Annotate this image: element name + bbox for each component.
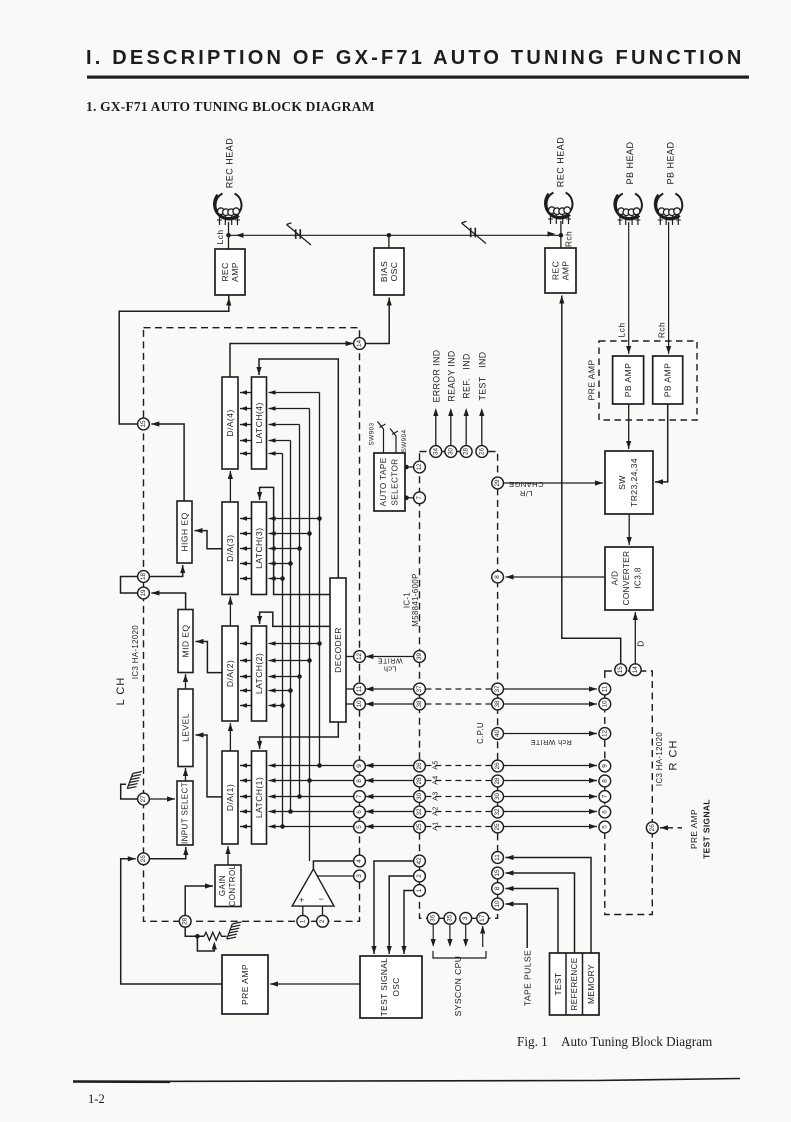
wire pin 18 to high eq input [149, 565, 182, 577]
pin 36 cpu bottom [427, 912, 439, 924]
svg-text:TEST: TEST [553, 972, 563, 995]
svg-text:A2: A2 [433, 806, 440, 815]
pin 26 cpu left [414, 760, 426, 772]
svg-text:26: 26 [649, 824, 656, 832]
wire selector to pin 12 [405, 466, 414, 468]
wire test signal osc to pre amp [270, 983, 360, 985]
a/d converter box [605, 547, 653, 610]
svg-text:28: 28 [463, 448, 470, 456]
wire rec amp L input from pin 15 [119, 295, 229, 424]
svg-text:PB AMP: PB AMP [623, 363, 633, 397]
svg-text:40: 40 [494, 730, 501, 738]
address rows A1-A5 [365, 765, 413, 767]
svg-text:TEST SIGNAL: TEST SIGNAL [379, 958, 389, 1017]
auto tape selector box [374, 453, 405, 511]
pin 29 cpu right [492, 477, 504, 489]
wire high eq output to pin 15 [151, 424, 184, 501]
wire D/A(3) to high eq [195, 531, 223, 549]
wire decoder input pin 10 [346, 703, 354, 705]
pin 38 cpu right [492, 698, 504, 710]
svg-text:A5: A5 [433, 760, 440, 769]
pin 26 r-ch right [646, 822, 658, 834]
svg-text:32: 32 [416, 808, 423, 816]
pin 2 L-ch bottom [317, 915, 329, 927]
latch LATCH(1) box [252, 751, 267, 844]
ground at trim resistor [227, 919, 242, 941]
svg-text:PB HEAD: PB HEAD [665, 141, 675, 184]
mid eq box [178, 610, 193, 673]
svg-text:A1: A1 [433, 821, 440, 830]
svg-text:3: 3 [462, 916, 469, 920]
wire cpu pin 42 to test signal osc [374, 861, 414, 954]
wire VR wiper [197, 936, 214, 951]
wire D/A chain 1-2 [229, 723, 231, 751]
svg-text:10: 10 [356, 700, 363, 708]
wire D/A chain 2-3 [229, 597, 231, 627]
latch to D/A arrows [240, 392, 252, 394]
ground at pin 27 [127, 769, 142, 791]
pin 28 cpu right [492, 775, 504, 787]
svg-text:REC HEAD: REC HEAD [556, 137, 566, 188]
svg-text:37: 37 [494, 685, 501, 693]
wire cpu pin 39 to pin 12 Lch write [365, 656, 413, 658]
pin 26 cpu right [492, 760, 504, 772]
R-ch IC3 pins top edge [615, 664, 627, 676]
address bus vertical lines [319, 393, 321, 766]
svg-text:12: 12 [416, 463, 423, 471]
wire cpu pin 37 to pin 11 [365, 688, 413, 690]
pb amp L box [613, 356, 644, 404]
svg-text:7: 7 [416, 496, 423, 500]
svg-text:D/A(3): D/A(3) [225, 535, 235, 562]
svg-text:HIGH EQ: HIGH EQ [180, 512, 190, 551]
bias osc box [374, 248, 404, 295]
svg-text:AUTO TAPE: AUTO TAPE [379, 457, 388, 506]
pin 7 L-ch right [354, 791, 366, 803]
svg-text:REFERENCE: REFERENCE [570, 958, 579, 1011]
pin 14 L-ch right [354, 338, 366, 350]
pin 17 cpu bottom [477, 912, 489, 924]
wire decoder input pin 12 [346, 656, 354, 658]
wire pre amp test signal to r-ch pin 26 [660, 827, 673, 829]
svg-text:Lch: Lch [215, 230, 225, 245]
svg-text:PB HEAD: PB HEAD [625, 141, 635, 184]
wire pb head R to pb amp [668, 222, 670, 354]
title rule [87, 76, 749, 79]
decoder box [330, 578, 346, 722]
pin 11 cpu right [492, 852, 504, 864]
svg-text:LATCH(3): LATCH(3) [254, 528, 264, 569]
wire rec head R down [560, 221, 562, 248]
svg-text:15: 15 [140, 420, 147, 428]
svg-text:30: 30 [447, 448, 454, 456]
svg-text:3: 3 [356, 874, 363, 878]
svg-text:8: 8 [494, 575, 501, 579]
wire rec head L to junction and rec amp [228, 222, 230, 249]
pin 11 r-ch left [599, 683, 611, 695]
svg-text:12: 12 [601, 730, 608, 738]
CPU IC-1 dashed box [420, 452, 498, 919]
resistor trim VR [204, 932, 227, 940]
svg-text:28: 28 [182, 917, 189, 925]
svg-text:PRE AMP: PRE AMP [240, 964, 250, 1005]
pin 28 L-ch bottom [179, 915, 191, 927]
wire pin 28 to trim resistor [185, 927, 204, 936]
svg-text:7: 7 [356, 794, 363, 798]
pin 3 cpu bottom [460, 912, 472, 924]
svg-text:30: 30 [416, 793, 423, 801]
wire pin 27 to ground [121, 784, 138, 799]
pin 15 cpu right [492, 867, 504, 879]
dashed wire cpu 38-38 [425, 703, 491, 705]
svg-text:PB AMP: PB AMP [663, 363, 673, 397]
pin 18 L-ch left [138, 571, 150, 583]
svg-text:A4: A4 [433, 775, 440, 784]
svg-text:SW904: SW904 [401, 429, 408, 452]
switch SW903 [383, 429, 385, 453]
svg-text:LEVEL: LEVEL [181, 713, 191, 742]
svg-text:IC3 HA-12020: IC3 HA-12020 [131, 625, 140, 679]
D/A(2) box [222, 626, 238, 721]
wire cpu pin 38 to r-ch pin 10 [504, 703, 598, 705]
pin 42 cpu left [414, 855, 426, 867]
pin 9 r-ch left [599, 760, 611, 772]
svg-text:11: 11 [494, 854, 501, 861]
svg-text:LATCH(2): LATCH(2) [254, 653, 264, 694]
pin 5 L-ch right [354, 821, 366, 833]
svg-text:OSC: OSC [391, 977, 401, 996]
pin 19 L-ch left [138, 587, 150, 599]
pin 5 r-ch left [599, 821, 611, 833]
pin 12 cpu left [414, 461, 426, 473]
wire r-ch pin 14 to a/d input D [634, 612, 636, 664]
svg-text:19: 19 [140, 589, 147, 597]
wire cpu pin 37 to r-ch pin 11 [504, 688, 598, 690]
wire D/A(1) to level [196, 735, 223, 797]
wire cpu pin 1 to test signal osc [404, 891, 414, 955]
bias line wire [229, 234, 561, 236]
svg-text:BIASOSC: BIASOSC [379, 261, 399, 282]
wire mid eq output to pin 19 [151, 593, 185, 610]
svg-text:Rch: Rch [657, 322, 667, 338]
dashed wire cpu 37-37 [425, 688, 491, 690]
svg-text:+: + [299, 895, 304, 905]
svg-text:R CH: R CH [668, 740, 680, 771]
svg-text:Fig. 1 Auto Tuning Block Diag: Fig. 1 Auto Tuning Block Diagram [517, 1034, 713, 1049]
svg-text:A/D: A/D [611, 571, 620, 586]
pin 38 cpu left [414, 698, 426, 710]
svg-text:D: D [636, 640, 646, 646]
svg-text:L CH: L CH [115, 677, 127, 706]
svg-text:28: 28 [416, 777, 423, 785]
svg-text:15: 15 [617, 666, 624, 674]
node Lch junction [226, 233, 231, 238]
pin 8 cpu right [492, 571, 504, 583]
wire decoder to latch(3) strobe [260, 487, 330, 594]
svg-text:11: 11 [601, 685, 608, 692]
svg-text:26: 26 [478, 448, 485, 456]
wire r-ch pin 15 to rec amp R [562, 296, 621, 664]
pin 7 cpu left [414, 492, 426, 504]
svg-text:34: 34 [432, 448, 439, 456]
svg-text:IC3,8: IC3,8 [634, 567, 643, 589]
svg-text:29: 29 [494, 479, 501, 487]
rec head Lch [216, 194, 242, 218]
pin 32 cpu right [492, 806, 504, 818]
latch(1) input rows from pins 9-5 [269, 765, 354, 767]
pin 11 L-ch right [354, 683, 366, 695]
wire D/A(4) output to pin 14 [230, 344, 354, 378]
pin 1 L-ch bottom [297, 915, 309, 927]
svg-text:SW903: SW903 [369, 422, 376, 445]
svg-text:PRE AMP: PRE AMP [689, 809, 699, 849]
wire pin 26 to input select input [149, 847, 185, 859]
svg-text:TEST SIGNAL: TEST SIGNAL [702, 799, 712, 859]
wire decoder input pin 11 [346, 688, 354, 690]
svg-text:26: 26 [416, 762, 423, 770]
wire pin 28 to gain control [185, 886, 213, 915]
test reference memory box [550, 953, 600, 1015]
svg-text:8: 8 [356, 779, 363, 783]
svg-text:DECODER: DECODER [333, 627, 343, 673]
rec amp R box [545, 248, 576, 293]
svg-text:SW: SW [617, 475, 627, 490]
svg-text:42: 42 [416, 857, 423, 865]
pin 3 L-ch right [354, 870, 366, 882]
svg-text:18: 18 [140, 573, 147, 581]
trimmer capacitor left [295, 229, 297, 239]
pin 37 cpu left [414, 683, 426, 695]
svg-text:25: 25 [416, 823, 423, 831]
svg-text:5: 5 [601, 825, 608, 829]
rec amp L box [215, 249, 245, 295]
svg-text:ERROR IND: ERROR IND [431, 350, 441, 403]
wire gain control to D/A(1) [227, 846, 229, 865]
svg-text:SELECTOR: SELECTOR [391, 458, 400, 505]
pin 12 r-ch left [599, 728, 611, 740]
svg-text:38: 38 [494, 700, 501, 708]
syscon bracket [433, 951, 486, 958]
switch SW904 [395, 436, 397, 453]
svg-text:5: 5 [356, 825, 363, 829]
svg-text:1. GX-F71 AUTO TUNING BLOCK DI: 1. GX-F71 AUTO TUNING BLOCK DIAGRAM [86, 99, 375, 114]
pin 15 L-ch left [138, 418, 150, 430]
pin 8 r-ch left [599, 775, 611, 787]
svg-text:10: 10 [494, 900, 501, 908]
svg-text:6: 6 [356, 810, 363, 814]
pin 10 L-ch right [354, 698, 366, 710]
pin 32 cpu left [414, 806, 426, 818]
pin 6 L-ch right [354, 806, 366, 818]
svg-text:M58841-600P: M58841-600P [411, 573, 420, 626]
svg-text:READY IND: READY IND [446, 350, 456, 401]
svg-text:28: 28 [494, 777, 501, 785]
svg-text:38: 38 [416, 700, 423, 708]
pin 30 cpu left [414, 791, 426, 803]
wire a/d output to cpu pin 8 [506, 576, 606, 578]
svg-text:TEST IND: TEST IND [477, 352, 487, 401]
svg-text:10: 10 [601, 700, 608, 708]
pin 4 L-ch right [354, 855, 366, 867]
svg-text:14: 14 [356, 340, 363, 348]
pin 25 cpu left [414, 821, 426, 833]
latch(2) input rows [269, 643, 320, 645]
svg-text:14: 14 [632, 666, 639, 674]
wire op-amp inputs to pins 1 2 [302, 906, 304, 915]
latch(4) input rows [269, 392, 320, 394]
wire sw to a/d converter [628, 514, 630, 545]
wire D/A(2) to mid eq [196, 642, 223, 673]
wire pin 18 pin 19 external loop [121, 577, 138, 594]
wire tape pulse [506, 904, 528, 948]
pin 8 L-ch right [354, 775, 366, 787]
svg-text:9: 9 [356, 764, 363, 768]
svg-text:REC HEAD: REC HEAD [225, 138, 235, 189]
pin 28 cpu top [460, 446, 472, 458]
svg-text:9: 9 [601, 764, 608, 768]
svg-text:Rch: Rch [564, 231, 574, 247]
pin 25 cpu right [492, 821, 504, 833]
svg-text:SYSCON CPU: SYSCON CPU [453, 956, 463, 1017]
svg-text:TAPE PULSE: TAPE PULSE [523, 950, 533, 1006]
wire decoder to latch(2) strobe [260, 612, 330, 626]
node Rch junction [559, 233, 564, 238]
wire decoder to latch(4) strobe [259, 359, 338, 578]
svg-text:L/RCHANGE: L/RCHANGE [509, 481, 544, 499]
pin 27 L-ch left [138, 793, 150, 805]
svg-text:LATCH(4): LATCH(4) [254, 402, 264, 443]
wire cpu pin 2 to test signal osc [389, 876, 413, 954]
pin 28 cpu left [414, 775, 426, 787]
sw box TR23,24,34 [605, 451, 653, 514]
svg-text:36: 36 [430, 914, 437, 922]
pin 10 cpu right [492, 898, 504, 910]
svg-text:CONVERTER: CONVERTER [622, 551, 631, 606]
svg-text:RECAMP: RECAMP [550, 261, 570, 281]
svg-text:MEMORY: MEMORY [586, 964, 596, 1004]
wire cpu pin 38 to pin 10 [365, 703, 413, 705]
op-amp comparator [292, 869, 334, 906]
high eq box [177, 501, 192, 563]
wire input select to level [185, 768, 187, 781]
wire pin 14 to bias osc [365, 298, 389, 344]
svg-text:27: 27 [140, 795, 147, 803]
svg-text:4: 4 [356, 859, 363, 863]
svg-text:PRE AMP: PRE AMP [587, 359, 597, 400]
wire pin 27 to input select [149, 798, 175, 800]
wire pb amp L to sw [628, 404, 630, 449]
pin 7 r-ch left [599, 791, 611, 803]
input select box [177, 781, 193, 845]
test signal osc box [360, 956, 422, 1018]
indicator output wires [435, 410, 437, 446]
svg-text:39: 39 [416, 653, 423, 661]
svg-text:D/A(1): D/A(1) [225, 784, 235, 811]
pin 26 L-ch left [138, 853, 150, 865]
pin 37 cpu right [492, 683, 504, 695]
wire op-amp apex to pin 4 [313, 861, 353, 869]
pin 30 cpu top [445, 446, 457, 458]
wire level output to mid eq [185, 674, 187, 689]
svg-text:IC3 HA-12020: IC3 HA-12020 [655, 732, 664, 786]
latch LATCH(3) box [252, 502, 267, 595]
svg-text:GAIN: GAIN [218, 875, 227, 896]
pin 8 cpu right [492, 883, 504, 895]
wire bias osc top [388, 235, 390, 248]
D/A(1) box [222, 751, 238, 844]
svg-text:26: 26 [494, 762, 501, 770]
pin 2 cpu left [414, 870, 426, 882]
svg-text:25: 25 [494, 823, 501, 831]
svg-text:A3: A3 [433, 791, 440, 800]
D/A(3) box [222, 502, 238, 595]
svg-text:Lch: Lch [617, 323, 627, 338]
pin 26 cpu top [476, 446, 488, 458]
svg-text:32: 32 [494, 808, 501, 816]
pre amp box [222, 955, 268, 1014]
wire test to cpu pin 8 [506, 889, 559, 954]
svg-text:1: 1 [299, 919, 306, 923]
level box [178, 689, 193, 767]
svg-text:17: 17 [479, 914, 486, 922]
syscon cpu pin wires [432, 924, 434, 945]
svg-text:1: 1 [416, 888, 423, 892]
svg-text:8: 8 [601, 779, 608, 783]
svg-text:MID EQ: MID EQ [181, 625, 191, 658]
pb head Rch [656, 194, 682, 218]
svg-text:Rch WRITE: Rch WRITE [530, 738, 572, 747]
svg-text:7: 7 [601, 794, 608, 798]
pin 35 cpu bottom [444, 912, 456, 924]
svg-text:12: 12 [356, 653, 363, 661]
svg-text:LchWRITE: LchWRITE [377, 657, 402, 674]
wire pb head L to pb amp [628, 222, 630, 354]
latch(3) input rows [269, 518, 320, 520]
wire op-amp output to pin 3 [317, 875, 353, 877]
wire selector to pin 7 [405, 497, 414, 499]
svg-text:26: 26 [140, 855, 147, 863]
svg-text:37: 37 [416, 685, 423, 693]
svg-text:CONTROL: CONTROL [228, 864, 237, 906]
wire D/A chain 3-4 [229, 471, 231, 502]
svg-text:I. DESCRIPTION OF GX-F71 AUTO: I. DESCRIPTION OF GX-F71 AUTO TUNING FUN… [86, 47, 744, 69]
svg-text:35: 35 [446, 914, 453, 922]
svg-text:TR23,24,34: TR23,24,34 [629, 458, 639, 507]
svg-text:REF. IND: REF. IND [462, 353, 472, 399]
footer rule [73, 1079, 740, 1082]
wire reference to cpu pin 15 [506, 873, 575, 953]
svg-text:15: 15 [494, 869, 501, 877]
pb head Lch [616, 194, 642, 218]
pin 1 cpu left [414, 885, 426, 897]
rec head Rch [547, 193, 573, 217]
svg-text:30: 30 [494, 793, 501, 801]
svg-text:−: − [319, 894, 324, 904]
wire cpu pin 40 to r-ch pin 12 Rch write [504, 733, 598, 735]
svg-text:11: 11 [356, 685, 363, 692]
node bias junction [387, 233, 392, 238]
latch LATCH(2) box [252, 626, 267, 721]
pin 40 cpu right [492, 728, 504, 740]
svg-text:C.P.U: C.P.U [476, 722, 485, 744]
trimmer capacitor right [470, 228, 472, 238]
svg-text:2: 2 [416, 874, 423, 878]
L-CH IC3 dashed box [144, 328, 360, 922]
wire decoder to latch(1) strobe [260, 722, 339, 749]
pin 9 L-ch right [354, 760, 366, 772]
svg-text:LATCH(1): LATCH(1) [254, 777, 264, 818]
wire memory to cpu pin 11 [506, 858, 592, 954]
